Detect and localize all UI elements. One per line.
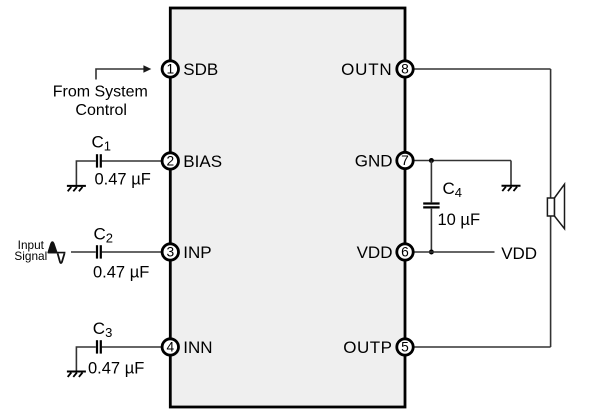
ground (below C1) bbox=[67, 186, 86, 191]
pin 6 VDD bbox=[357, 243, 414, 262]
svg-text:VDD: VDD bbox=[357, 243, 393, 262]
svg-text:0.47 µF: 0.47 µF bbox=[95, 171, 151, 189]
wire (C3 to pin 4) bbox=[76, 347, 162, 371]
svg-text:SDB: SDB bbox=[183, 60, 218, 79]
svg-text:GND: GND bbox=[355, 152, 393, 171]
svg-text:8: 8 bbox=[401, 62, 409, 77]
pin 1 SDB bbox=[162, 60, 218, 79]
pin 3 INP bbox=[162, 243, 212, 262]
svg-text:C1: C1 bbox=[92, 133, 112, 154]
pin 8 OUTN bbox=[341, 60, 413, 79]
wire (speaker vertical) bbox=[550, 69, 552, 347]
pin 7 GND bbox=[355, 152, 413, 171]
svg-text:0.47 µF: 0.47 µF bbox=[93, 264, 149, 282]
node: input signal sine symbol bbox=[48, 242, 65, 263]
svg-text:0.47 µF: 0.47 µF bbox=[88, 360, 144, 378]
svg-text:C2: C2 bbox=[94, 224, 114, 245]
svg-text:2: 2 bbox=[166, 154, 174, 169]
svg-text:Signal: Signal bbox=[14, 249, 47, 263]
capacitor C2 bbox=[97, 245, 101, 258]
svg-text:C3: C3 bbox=[93, 319, 113, 340]
wire (pin 6 to VDD net) bbox=[414, 251, 495, 253]
svg-text:5: 5 bbox=[401, 340, 409, 355]
pin 2 BIAS bbox=[162, 152, 222, 171]
svg-text:10 µF: 10 µF bbox=[438, 211, 481, 229]
svg-text:OUTN: OUTN bbox=[341, 60, 392, 79]
node junction on GND wire bbox=[429, 158, 434, 163]
svg-text:1: 1 bbox=[166, 62, 174, 77]
svg-text:7: 7 bbox=[401, 153, 409, 168]
capacitor C1 bbox=[97, 154, 101, 167]
pin 4 INN bbox=[162, 338, 212, 357]
arrowhead into pin 1 bbox=[143, 65, 151, 72]
wire (C4 vertical branch) bbox=[430, 161, 432, 253]
svg-text:BIAS: BIAS bbox=[183, 152, 222, 171]
wire (from-system-control arrow to pin 1) bbox=[96, 69, 144, 80]
speaker LS1 bbox=[547, 184, 564, 229]
op-amp U1 (audio amplifier IC body) bbox=[170, 8, 405, 407]
svg-text:VDD: VDD bbox=[501, 244, 537, 263]
capacitor C3 bbox=[97, 340, 101, 353]
wire (pin 5 OUTP to speaker bottom) bbox=[414, 346, 551, 348]
wire (C1 to pin 2) bbox=[76, 161, 162, 186]
svg-text:INN: INN bbox=[183, 338, 212, 357]
pin 5 OUTP bbox=[343, 338, 413, 357]
svg-text:Control: Control bbox=[75, 102, 127, 119]
svg-text:3: 3 bbox=[166, 245, 174, 260]
node junction on VDD wire bbox=[429, 250, 434, 255]
svg-text:OUTP: OUTP bbox=[343, 338, 392, 357]
ground (right of pin 7) bbox=[502, 186, 521, 191]
wire (pin 7 GND to right ground) bbox=[414, 161, 512, 186]
capacitor C4 bbox=[423, 204, 439, 208]
svg-text:INP: INP bbox=[183, 243, 211, 262]
svg-text:4: 4 bbox=[166, 340, 174, 355]
svg-text:6: 6 bbox=[401, 245, 409, 260]
ground (below C3) bbox=[67, 372, 86, 377]
wire (input to C2 to pin 3) bbox=[71, 251, 162, 253]
wire (pin 8 OUTN to speaker top) bbox=[414, 68, 551, 70]
svg-text:C4: C4 bbox=[443, 179, 463, 200]
svg-text:From System: From System bbox=[53, 84, 148, 101]
